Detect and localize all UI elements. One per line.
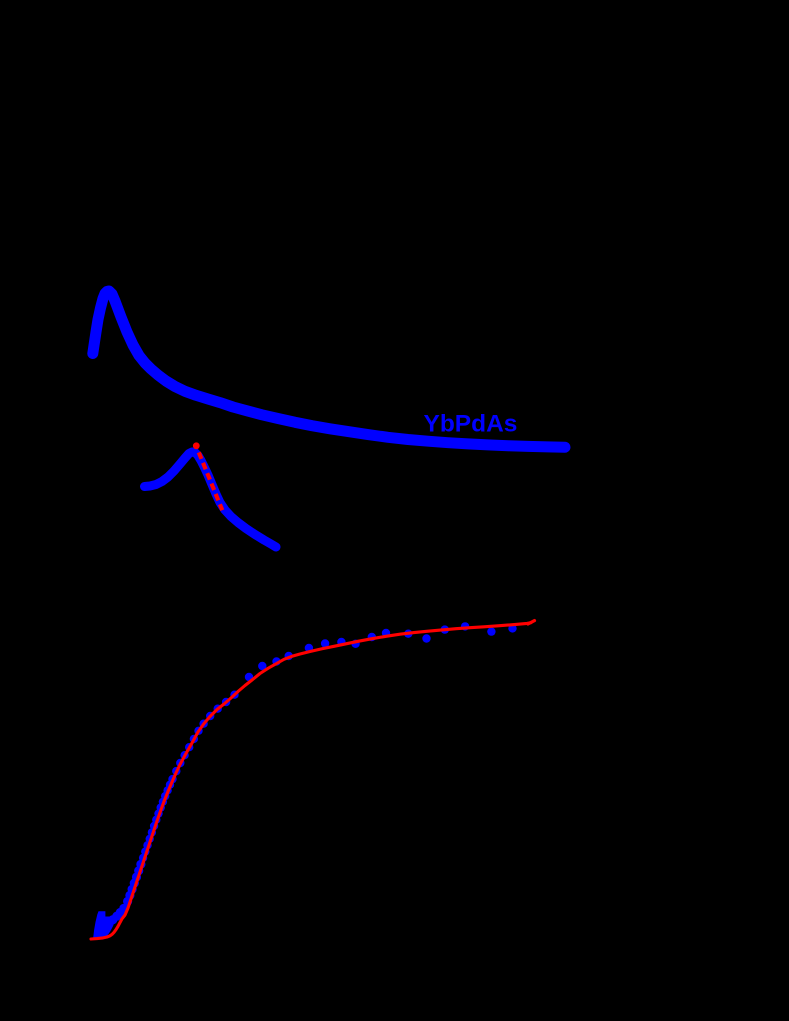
middle curve: peak with shoulder (thick blue)	[145, 452, 277, 547]
top curve: chi vs T for YbPdAs (thick blue)	[93, 291, 565, 447]
bottom data points (blue dots)	[108, 622, 517, 924]
red dashed tangent line	[199, 452, 223, 510]
svg-text:YbPdAs: YbPdAs	[424, 411, 518, 438]
red dash leader dot	[193, 442, 200, 449]
low-T blue cluster blob	[93, 911, 114, 938]
bottom red fit curve	[91, 623, 531, 939]
red curve end hook	[528, 621, 535, 624]
